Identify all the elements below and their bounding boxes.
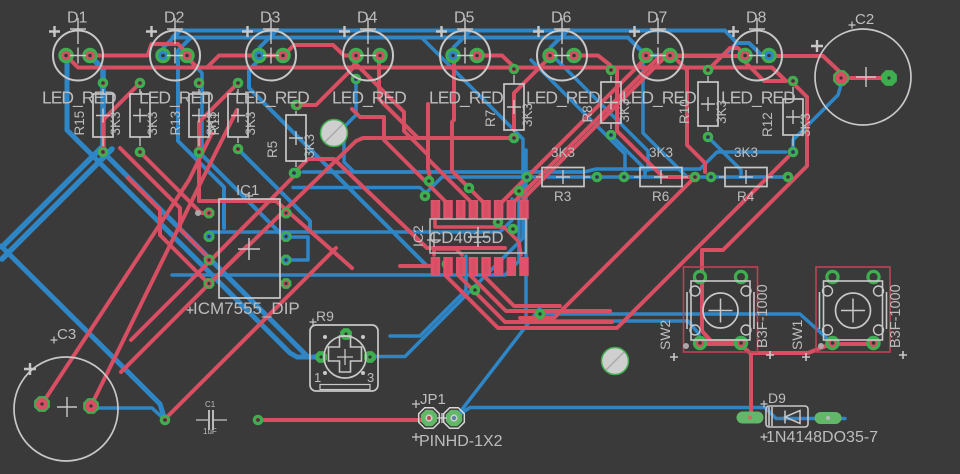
wire blue r10 stub — [708, 137, 741, 177]
label D4 — [357, 10, 378, 27]
LED D4 outline — [339, 18, 393, 81]
wire red ic2 t4 — [428, 104, 474, 205]
wire red IC1 diag2 — [128, 178, 211, 286]
svg-text:3K3: 3K3 — [302, 134, 317, 158]
svg-text:R7: R7 — [483, 110, 498, 127]
svg-text:1N4148DO35-7: 1N4148DO35-7 — [766, 429, 878, 446]
wire red ic2 inner — [435, 221, 521, 255]
wire red vert r13 — [199, 83, 238, 151]
svg-text:D6: D6 — [551, 10, 572, 27]
wire red main bus — [66, 56, 786, 82]
diode D9 outline — [761, 401, 809, 441]
label 3K3 of R12 — [798, 113, 813, 137]
wire blue box3 top — [188, 59, 202, 152]
wire blue diag c1 — [370, 38, 523, 357]
LED D3 outline — [242, 18, 296, 81]
wire blue diag c3 — [557, 60, 648, 170]
header JP1 silk — [412, 400, 420, 441]
svg-text:D1: D1 — [67, 10, 88, 27]
capacitor C3 outline — [14, 357, 118, 461]
svg-text:3K3: 3K3 — [798, 113, 813, 137]
label 3K3 of R10 — [714, 100, 729, 124]
wire blue top bus 1 — [180, 31, 769, 56]
resistor R11 outline — [228, 89, 248, 143]
LED D7 pads — [638, 48, 677, 63]
wire red ic2 b2 — [459, 276, 612, 322]
wire red sw2 feed — [702, 83, 807, 341]
label LED_RED 6 — [526, 88, 600, 109]
label D2 — [164, 10, 185, 27]
svg-text:3K3: 3K3 — [108, 111, 123, 135]
label plus sw2 — [670, 351, 774, 361]
label JP1 — [420, 391, 446, 408]
LED D8 pads — [737, 48, 776, 63]
op-amp IC1 outline — [219, 199, 280, 298]
wire red ic2 b0 — [400, 264, 433, 268]
svg-text:1uF: 1uF — [203, 427, 217, 436]
label C3 — [51, 326, 77, 344]
label R15 — [72, 111, 87, 136]
svg-text:3K3: 3K3 — [243, 111, 258, 135]
label 1 of R9 — [314, 370, 321, 385]
diode D9 pads — [737, 412, 842, 425]
wire red sw2-sw1 — [740, 344, 872, 353]
IC2 smd pads top — [431, 200, 529, 219]
label PINHD-1X2 — [419, 433, 503, 450]
label 3K3 of R5 — [302, 134, 317, 158]
resistor R15 pads — [98, 78, 109, 158]
label R8 — [580, 105, 595, 122]
svg-text:R15: R15 — [72, 111, 87, 136]
resistor R7 pads — [509, 64, 520, 144]
wire red d8 diag — [745, 62, 786, 81]
wire red d7 col — [673, 56, 705, 172]
wire red twin A — [131, 176, 294, 340]
wire red ic2 inner2 — [434, 249, 462, 255]
IC1 pad right 3 — [281, 255, 292, 266]
svg-text:LED_RED: LED_RED — [42, 88, 116, 109]
svg-text:D3: D3 — [260, 10, 281, 27]
resistor R11 pads — [233, 78, 244, 155]
wire red jog1 — [91, 44, 189, 56]
label R4 — [737, 189, 755, 204]
label R12 — [760, 112, 775, 137]
resistor R10 outline — [698, 76, 718, 131]
label R13 — [168, 111, 183, 136]
wire red r10 up — [708, 48, 745, 70]
svg-text:3K3: 3K3 — [714, 100, 729, 124]
wire red R4 long — [520, 177, 695, 318]
svg-text:D7: D7 — [647, 10, 668, 27]
wire blue w4 — [67, 62, 318, 357]
IC1 pad left 1 — [204, 208, 215, 219]
LED D4 pads — [348, 48, 387, 63]
wire blue top bus 2 — [173, 38, 736, 56]
label R6 — [652, 189, 669, 204]
svg-text:CD4015D: CD4015D — [429, 228, 504, 247]
IC1 pad right 1 — [281, 208, 292, 219]
wire blue LED drop — [551, 31, 568, 55]
svg-text:R3: R3 — [554, 189, 571, 204]
capacitor C1 pads — [160, 415, 264, 426]
LED D1 outline — [49, 18, 103, 81]
wire red C1-JP1 — [262, 418, 428, 420]
svg-text:3K3: 3K3 — [734, 145, 758, 160]
LED D6 outline — [533, 18, 587, 81]
resistor R4 outline — [719, 168, 773, 187]
resistor R14 outline — [130, 89, 150, 146]
IC1 pad right 2 — [281, 231, 292, 242]
svg-text:SW1: SW1 — [789, 319, 805, 350]
wire red ic2 t5 — [452, 62, 486, 205]
wire red ic2 t6 — [499, 56, 646, 205]
resistor R pads — [135, 78, 146, 158]
svg-text:C3: C3 — [57, 326, 76, 343]
wire red ic2 t1 — [297, 60, 356, 105]
label B3F-1000 of SW1 — [888, 284, 904, 348]
wire blue IC1 mid — [209, 199, 512, 232]
svg-text:R9: R9 — [316, 308, 334, 324]
wire red jog1b — [207, 56, 284, 68]
wire red twin B — [209, 138, 509, 284]
wire blue box4 — [238, 149, 310, 232]
capacitor C1 outline — [196, 410, 227, 430]
wire red steep2 — [42, 133, 212, 404]
wire red IC1 diag1 — [120, 148, 211, 260]
label D6 — [551, 10, 572, 27]
label SW1 — [789, 319, 805, 350]
button SW2 outline — [684, 267, 758, 352]
svg-text:3: 3 — [367, 370, 374, 385]
LED D3 pads — [251, 48, 290, 63]
wire red ic2 t2 — [352, 109, 449, 205]
IC IC2 outline — [427, 219, 526, 253]
button SW1 outline — [816, 267, 890, 352]
wire blue D1 col — [2, 58, 103, 247]
svg-text:3K3: 3K3 — [520, 103, 535, 127]
svg-text:C1: C1 — [205, 400, 216, 409]
label R9 — [310, 308, 335, 326]
svg-text:D4: D4 — [357, 10, 378, 27]
LED D8 outline — [728, 18, 782, 81]
svg-text:LED_RED: LED_RED — [235, 88, 309, 109]
svg-text:R6: R6 — [652, 189, 669, 204]
label 3K3 of R8 — [617, 98, 632, 122]
wire blue mid H1b — [584, 152, 786, 172]
LED D6 pads — [542, 48, 581, 63]
wire red C1 diag — [165, 248, 336, 419]
svg-text:D2: D2 — [164, 10, 185, 27]
wire red IC1 elbow — [199, 152, 352, 268]
IC2 bottom pad stubs — [436, 259, 487, 274]
wire red r8 col — [617, 69, 689, 177]
wire red ic2 t3 — [356, 64, 430, 179]
label R10 — [677, 99, 692, 124]
wire blue IC1 hook — [286, 237, 308, 260]
svg-text:LED_RED: LED_RED — [332, 88, 406, 109]
svg-text:R11: R11 — [207, 112, 222, 136]
IC1 pad left 4 — [204, 278, 215, 289]
resistor R7 outline — [504, 75, 524, 132]
resistor R6 pads — [619, 172, 701, 183]
wire red to IC1 p2 — [121, 246, 247, 372]
svg-text:IC2: IC2 — [410, 225, 426, 247]
svg-text:D8: D8 — [746, 10, 767, 27]
IC1 pad right 4 — [281, 278, 292, 289]
label LED_RED 4 — [332, 88, 406, 109]
label IC2 — [410, 225, 426, 247]
label B3F-1000 of SW2 — [755, 284, 771, 348]
wire blue D4 col — [344, 78, 584, 172]
svg-text:C2: C2 — [855, 11, 874, 28]
label 3K3 of R15 — [108, 111, 123, 135]
wire blue IC1 mid2 — [172, 199, 519, 275]
LED D7 outline — [629, 18, 683, 81]
wire blue mid H1 — [303, 170, 584, 174]
wire red D5 stub — [477, 56, 514, 68]
wire blue X1 — [457, 308, 540, 416]
svg-text:R8: R8 — [580, 105, 595, 122]
svg-text:B3F-1000: B3F-1000 — [888, 284, 904, 348]
label LED_RED 5 — [429, 88, 503, 109]
wire red D6 left — [514, 56, 551, 130]
drill dot 3 — [683, 343, 689, 349]
label 3 of R9 — [367, 370, 374, 385]
wire red ic2 b4 — [484, 276, 560, 306]
LED D5 pads — [445, 48, 484, 63]
svg-text:R12: R12 — [760, 112, 775, 137]
wire blue SW h1 — [540, 314, 830, 341]
svg-text:1: 1 — [314, 370, 321, 385]
resistor R5 outline — [286, 111, 306, 167]
IC1 pad left 3 — [204, 255, 215, 266]
label R3 — [554, 189, 571, 204]
wire red ic2 t8 — [524, 56, 745, 198]
wire red ic2 t7 — [511, 55, 669, 205]
IC1 pad left 2 — [204, 231, 215, 242]
svg-text:D9: D9 — [768, 390, 786, 406]
wire blue box3 — [199, 152, 288, 237]
label 3K3 of R7 — [520, 103, 535, 127]
wire blue D3 diag — [249, 60, 433, 266]
svg-text:3K3: 3K3 — [617, 98, 632, 122]
label D8 — [746, 10, 767, 27]
label LED_RED 3 — [235, 88, 309, 109]
label D1 — [67, 10, 88, 27]
wire red ic2 b1 — [446, 157, 788, 328]
label plus sw1 — [802, 351, 907, 361]
LED D2 outline — [146, 18, 200, 81]
wire blue bus joint — [173, 31, 181, 38]
wire red R7 feed — [379, 62, 418, 138]
JP1 pad 2 — [444, 408, 465, 429]
wire blue D2 col — [178, 38, 224, 229]
trimmer R9 pads — [315, 328, 376, 363]
wire blue mid H2 — [425, 177, 788, 194]
svg-text:D5: D5 — [454, 10, 475, 27]
resistor R3 pads — [522, 172, 603, 183]
resistor R5 pads — [291, 100, 302, 179]
svg-text:3K3: 3K3 — [649, 145, 673, 160]
resistor R13 pads — [194, 78, 205, 158]
button SW2 pads — [693, 270, 748, 350]
resistor R6 outline — [634, 168, 688, 187]
resistor R12 pads — [788, 76, 799, 158]
label C2 — [849, 11, 875, 29]
label 3K3 of None — [145, 111, 160, 135]
label LED_RED 2 — [139, 88, 213, 109]
label SW2 — [657, 319, 673, 350]
svg-text:R10: R10 — [677, 99, 692, 124]
wire blue C2 feed — [793, 85, 841, 150]
wire blue w3 — [103, 152, 321, 357]
svg-text:LED_RED: LED_RED — [429, 88, 503, 109]
IC2 top pad stubs — [436, 201, 525, 217]
wire red ic2 b3 — [471, 276, 610, 311]
label 3K3 of R13 — [204, 111, 219, 135]
label 3K3 of R11 — [243, 111, 258, 135]
label 1N4148DO35-7 — [766, 429, 878, 446]
wire blue IC1 top — [293, 188, 425, 193]
resistor R10 pads — [703, 65, 714, 143]
resistor R3 outline — [536, 168, 590, 187]
hole H1 — [321, 120, 348, 147]
label D7 — [647, 10, 668, 27]
wire red vert r15 — [103, 83, 140, 151]
capacitor C3 pads — [34, 396, 99, 414]
wire blue d7 col — [628, 38, 687, 178]
label R5 — [265, 141, 280, 158]
drill dot 2 — [818, 343, 824, 349]
wire red D2 dip — [188, 56, 198, 68]
svg-text:SW2: SW2 — [657, 319, 673, 350]
label D5 — [454, 10, 475, 27]
svg-text:R13: R13 — [168, 111, 183, 136]
svg-text:ICM7555_DIP: ICM7555_DIP — [193, 299, 300, 318]
label 3K3 of R6 — [649, 145, 673, 160]
resistor R15 outline — [93, 89, 113, 146]
label LED_RED 1 — [42, 88, 116, 109]
wire red R5 east — [296, 159, 505, 248]
wire red D6 stub — [574, 56, 610, 66]
wire blue SW h2 — [526, 321, 738, 341]
resistor R12 outline — [783, 87, 803, 146]
label IC1 — [236, 182, 259, 200]
capacitor C2 pads — [833, 70, 897, 86]
label CD4015D — [429, 228, 504, 247]
wire red D3 jog — [284, 45, 357, 56]
label LED_RED 7 — [622, 88, 696, 109]
wire red D8-C2 — [774, 56, 889, 78]
svg-text:B3F-1000: B3F-1000 — [755, 284, 771, 348]
svg-text:JP1: JP1 — [420, 391, 446, 408]
svg-text:LED_RED: LED_RED — [721, 88, 795, 109]
svg-text:PINHD-1X2: PINHD-1X2 — [419, 433, 503, 450]
svg-text:R5: R5 — [265, 141, 280, 158]
wire red to IC1 p1 — [140, 152, 211, 213]
via cluster — [289, 74, 546, 320]
JP1 mid cross — [437, 413, 447, 423]
svg-text:3K3: 3K3 — [551, 145, 575, 160]
wire blue col2 — [2, 149, 112, 259]
label 1uF — [203, 427, 217, 436]
svg-text:LED_RED: LED_RED — [139, 88, 213, 109]
wire red d9 vert — [749, 353, 753, 413]
LED D1 pads — [58, 48, 97, 63]
resistor R13 outline — [189, 89, 209, 146]
svg-text:R4: R4 — [737, 189, 755, 204]
wire blue bottom bus — [91, 408, 164, 419]
wire blue LED drop — [260, 31, 277, 55]
drill dot 1 — [195, 210, 201, 216]
label 3K3 of R3 — [551, 145, 575, 160]
capacitor C2 outline — [811, 29, 911, 125]
label C1 — [205, 400, 216, 409]
resistor R8 outline — [601, 76, 621, 129]
LED D5 outline — [436, 18, 490, 81]
wire blue ic2 v3 — [524, 150, 528, 321]
button SW1 pads — [825, 270, 880, 350]
label D3 — [260, 10, 281, 27]
trimmer R9 outline — [310, 325, 378, 391]
label 3K3 of R4 — [734, 145, 758, 160]
label ICM7555_DIP — [187, 299, 300, 318]
wire blue JP1-D9 — [457, 408, 845, 419]
wire red steep1 — [91, 110, 237, 406]
resistor R8 pads — [606, 65, 617, 141]
IC2 smd pads bottom — [431, 257, 529, 276]
wire red sw2 pads — [700, 342, 740, 346]
label R7 — [483, 110, 498, 127]
label D9 — [768, 390, 786, 406]
wire blue LED drop — [164, 31, 181, 55]
JP1 pad 1 — [419, 408, 440, 429]
LED D2 pads — [155, 48, 194, 63]
wire blue LED drop — [454, 31, 471, 55]
hole H2 — [602, 348, 629, 375]
wire blue diag c2 — [531, 60, 625, 170]
svg-text:3K3: 3K3 — [145, 111, 160, 135]
label R11 — [207, 112, 222, 136]
wire blue w5 — [1, 246, 164, 417]
label LED_RED 8 — [721, 88, 795, 109]
wire blue r8 stub — [611, 135, 645, 177]
wire blue ic2 d1 — [390, 256, 466, 336]
resistor R4 pads — [706, 172, 794, 183]
